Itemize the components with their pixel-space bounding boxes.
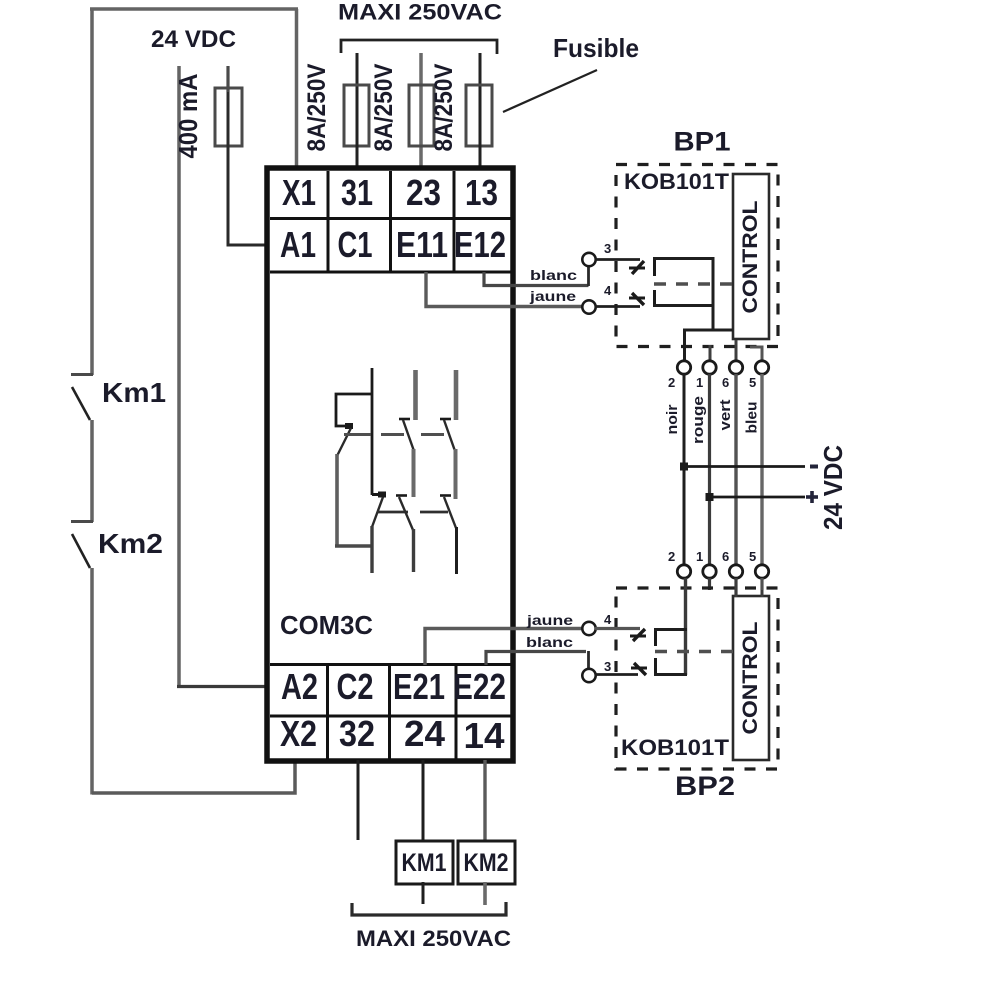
node pin5 bottom circle [755,565,768,578]
wire X1 feed drop [295,9,299,168]
svg-text:KOB101T: KOB101T [624,169,730,194]
wire 14 to KM2 [483,760,486,842]
svg-text:CONTROL: CONTROL [739,200,762,313]
junction minus [680,463,688,471]
relay contact2 blade [403,420,414,451]
relay contact5 blade [399,497,413,530]
svg-text:C2: C2 [337,666,374,707]
svg-text:14: 14 [464,715,505,756]
relay hook arrowhead [345,423,353,429]
svg-text:A2: A2 [281,666,318,707]
contact Km1 upper tick [71,373,93,376]
relay contact1 lower terminal [335,454,339,547]
relay contact3 tick [440,418,451,421]
relay contact3 mid terminal [454,449,458,499]
svg-text:rouge: rouge [690,396,707,444]
wire 32 stub [357,760,360,840]
node pin1 bottom circle [703,565,716,578]
coil KM2 box [458,841,515,884]
contact BP2 lower pivot tick [631,667,647,670]
wire E22 stub blanc BP2 [486,652,586,666]
contact Km2 blade [72,534,90,568]
contact BP1 lower pivot tick [629,297,645,300]
box BP1 dashed [616,165,778,347]
relay contact2 upper terminal [413,370,418,420]
box CONTROL BP2 [733,596,769,760]
terminal grid bottom rows [270,665,511,761]
svg-text:Km2: Km2 [98,528,163,559]
svg-text:400 mA: 400 mA [173,73,203,158]
relay contact2 mid terminal [412,449,416,497]
svg-text:MAXI 250VAC: MAXI 250VAC [356,926,511,951]
node terminal 4 BP1 circle [582,300,595,313]
svg-text:32: 32 [339,713,375,754]
contact BP1 upper blade [632,261,644,274]
svg-text:X1: X1 [282,172,316,213]
node pin5 top circle [755,361,768,374]
bracket MAXI bottom [352,902,506,915]
relay contact6 blade [444,497,456,528]
svg-text:CONTROL: CONTROL [739,621,762,734]
svg-text:BP1: BP1 [674,127,731,157]
wire column noir [683,374,686,565]
contact BP1 upper T-bar [653,258,656,276]
terminal grid top rows [270,171,511,272]
wire left rail upper segment [90,9,94,375]
node pin1 top circle [703,361,716,374]
svg-text:6: 6 [722,375,729,390]
contact BP1 lower T-bar [653,290,656,307]
svg-text:Fusible: Fusible [553,33,639,63]
wire A1 fuse feed lower [228,92,267,245]
node pin6 bottom circle [729,565,742,578]
box CONTROL BP1 [733,174,769,339]
svg-text:8A/250V: 8A/250V [303,63,331,151]
contact BP1 lower blade [632,293,644,305]
svg-text:noir: noir [664,404,681,434]
svg-text:8A/250V: 8A/250V [430,63,458,151]
svg-text:24 VDC: 24 VDC [151,26,236,53]
wire contact3 output BP2 [654,673,687,676]
svg-text:vert: vert [717,400,734,431]
relay contact3 upper terminal [454,370,459,420]
label minus sign [810,465,818,469]
svg-text:A1: A1 [280,224,316,265]
node pin6 top circle [729,361,742,374]
contact BP2 upper blade [633,629,645,641]
wire pin5 bottom stub [760,578,763,590]
contact BP2 upper pivot tick [630,635,646,638]
wire column vert [734,374,737,565]
relay linkage lower [377,511,448,514]
svg-text:1: 1 [696,549,703,564]
fuse F2 body [409,85,434,146]
relay contact6 bottom terminal [455,527,458,574]
svg-text:31: 31 [341,172,373,213]
wire BP1 output junction vertical [712,258,715,331]
coil KM1 box [396,841,453,884]
contact BP2 lower T-bar [654,658,657,675]
wire A1 fuse feed upper [226,66,229,92]
wire contact4 output BP2 [654,628,687,631]
contact BP2 lower blade [634,663,646,675]
link dashed mechanical BP1 [654,282,733,286]
node terminal 3 BP2 circle [582,669,595,682]
fuse F1 body [344,85,369,146]
wire BP1 pin1 stub [709,345,712,361]
junction plus [706,493,714,501]
wire BP1 pin2 drop [683,329,686,361]
wire 24 to KM1 [422,760,425,842]
svg-text:Km1: Km1 [102,377,166,408]
wire column rouge [708,374,711,565]
wire E11 stub jaune [426,272,582,307]
svg-text:2: 2 [668,549,675,564]
svg-text:BP2: BP2 [675,771,735,801]
relay contact5 bottom terminal [412,529,415,572]
wire left rail middle segment [90,420,94,522]
contact Km1 blade [72,387,90,420]
svg-text:C1: C1 [338,224,373,265]
svg-text:1: 1 [696,375,703,390]
svg-text:KOB101T: KOB101T [621,735,730,760]
relay coil hook [336,394,372,426]
wire BP1 pin6 stub [735,340,738,361]
wire contact4 input BP2 [595,627,640,630]
wire blanc riser [587,266,590,286]
wire A2 rail vertical [177,66,181,688]
wire contact4 output BP1 [653,304,715,307]
contact BP1 upper pivot tick [629,267,645,270]
svg-text:KM1: KM1 [402,849,447,877]
relay contact4 bottom terminal [370,526,373,573]
bracket MAXI top [341,40,497,54]
wire A2 rail into box [177,685,268,688]
svg-text:4: 4 [604,283,612,298]
link dashed mechanical BP2 [655,650,733,654]
svg-text:jaune: jaune [526,613,574,628]
svg-text:E11: E11 [396,224,448,265]
contact BP2 upper T-bar [654,628,657,646]
wire contact3 output BP1 [653,257,715,260]
svg-text:8A/250V: 8A/250V [370,63,398,151]
wire fuse1 upper [356,53,359,90]
relay contact5 tick [396,494,407,497]
contact Km2 upper tick [71,520,93,523]
svg-text:E12: E12 [454,224,506,265]
node pin2 bottom circle [677,565,690,578]
wire KM2 bottom stub [483,882,487,905]
svg-text:X2: X2 [280,713,317,754]
wire BP1 pin5 jog [750,347,762,361]
wire blanc dropper BP2 [587,651,590,669]
relay lower-left link [335,544,373,547]
svg-text:bleu: bleu [744,402,761,434]
box BP2 dashed [616,588,778,769]
svg-text:E21: E21 [393,666,445,707]
node terminal 4 BP2 circle [582,622,595,635]
relay armature shaft [371,368,374,495]
wire KM1 bottom stub [422,882,425,904]
relay contact6 tick [440,494,451,497]
wire pin1 bottom stub [708,578,711,590]
wire E21 stub jaune BP2 [425,629,582,666]
wire bottom return to X2 [92,759,295,793]
node pin2 top circle [677,361,690,374]
wire E12 stub blanc [484,272,589,286]
wire BP2 pin2 long vertical [684,578,687,675]
svg-text:23: 23 [406,172,441,213]
svg-text:4: 4 [604,612,612,627]
wire BP2 pin6 top stub [735,590,738,597]
svg-text:5: 5 [749,375,756,390]
relay linkage upper [344,433,444,436]
fuse F0 400mA body [215,88,242,146]
wire fuse3 lower [479,90,482,168]
relay contact4 blade lower-left [372,497,383,527]
wire minus 24VDC [684,465,805,468]
svg-text:13: 13 [465,172,498,213]
wire plus 24VDC [710,496,806,499]
fuse F3 body [466,85,492,146]
wire fuse1 lower [356,90,359,168]
svg-text:5: 5 [749,549,756,564]
svg-text:3: 3 [604,241,611,256]
label plus sign [806,491,818,503]
relay contact3 blade [444,420,455,451]
wire 24VDC top feed horizontal [90,7,298,11]
relay module COM3C outline [267,168,513,761]
svg-text:24 VDC: 24 VDC [818,445,848,530]
wire contact3 input BP2 [595,673,638,676]
wire BP2 pin5 top stub [761,590,764,597]
svg-text:6: 6 [722,549,729,564]
wire left rail lower segment [90,568,94,795]
wire fuse3 upper [479,53,482,90]
relay contact2 tick [399,418,410,421]
pointer line Fusible [503,70,597,112]
svg-text:E22: E22 [453,666,506,707]
relay armature blob [378,492,386,498]
svg-text:3: 3 [604,659,611,674]
svg-text:jaune: jaune [529,289,577,304]
svg-text:COM3C: COM3C [280,610,373,640]
wire contact4 input BP1 [595,305,640,308]
svg-text:blanc: blanc [530,268,578,283]
wire column bleu [760,374,763,565]
svg-text:2: 2 [668,375,675,390]
wire contact3 input BP1 [595,258,640,261]
wire pin6 bottom stub [734,578,737,597]
svg-text:MAXI 250VAC: MAXI 250VAC [338,0,502,25]
svg-text:KM2: KM2 [464,849,509,877]
svg-text:blanc: blanc [526,635,574,650]
relay armature tick [372,493,386,496]
svg-text:24: 24 [404,713,445,754]
wire fuse2 [419,53,423,168]
node terminal 3 BP1 circle [582,253,595,266]
relay contact1 blade [337,428,351,456]
wire BP1 output to CONTROL [683,329,733,332]
